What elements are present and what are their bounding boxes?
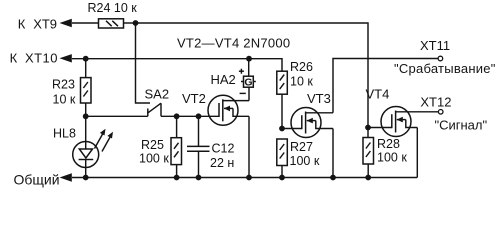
wire gate node to C12 xyxy=(198,116,200,146)
svg-text:R24 10 к: R24 10 к xyxy=(88,1,138,15)
terminal XT11 xyxy=(438,56,443,61)
svg-text:C12: C12 xyxy=(212,142,235,156)
transistor VT3 xyxy=(291,108,333,138)
wire gate to VT4 xyxy=(368,127,392,129)
wire HL8 to ground rail xyxy=(85,168,87,178)
wire node A down to HL8 xyxy=(85,116,87,141)
svg-text:100 к: 100 к xyxy=(377,151,407,165)
LED arrow 1 xyxy=(95,129,106,149)
svg-text:10 к: 10 к xyxy=(290,75,313,89)
junction dot C12 ground xyxy=(196,175,202,181)
svg-text:R27: R27 xyxy=(290,140,313,154)
wire R27 to ground xyxy=(281,166,283,178)
wire VT2 source down to ground xyxy=(248,116,250,177)
junction dot R27 ground xyxy=(279,175,285,181)
junction dot C12 top xyxy=(196,113,202,119)
junction dot HL8 ground xyxy=(83,175,89,181)
wire VT3 source down to ground xyxy=(332,129,334,178)
capacitor C12 xyxy=(187,146,210,151)
junction dot node A xyxy=(83,113,89,119)
svg-text:Общий: Общий xyxy=(14,172,60,188)
resistor R24 xyxy=(99,19,124,28)
svg-text:22 н: 22 н xyxy=(210,156,234,170)
svg-text:100 к: 100 к xyxy=(139,152,169,166)
buzzer HA2 xyxy=(241,76,256,89)
svg-text:100 к: 100 к xyxy=(290,154,320,168)
junction dot R24 rail xyxy=(133,20,139,26)
wire VT2 drain up to HA2 xyxy=(248,87,250,100)
LED HL8 xyxy=(73,142,99,168)
resistor R28 xyxy=(363,138,374,165)
resistor R27 xyxy=(277,139,288,166)
wire VT3 drain up to XT11 xyxy=(333,59,438,113)
wire R28 to ground xyxy=(367,164,369,178)
svg-text:R26: R26 xyxy=(290,60,313,74)
wire gate node to R25 xyxy=(176,116,178,137)
svg-text:ХТ11: ХТ11 xyxy=(420,38,450,53)
arrow to XT10 xyxy=(60,54,72,62)
junction dot R25 ground xyxy=(174,175,180,181)
wire node A to SA2 xyxy=(86,115,148,117)
svg-text:VT3: VT3 xyxy=(307,91,331,106)
wire R24 junction down to SA2 upper contact xyxy=(136,23,151,103)
wire VT4 source down to ground xyxy=(416,128,418,178)
svg-text:КХТ10: КХТ10 xyxy=(10,50,58,65)
wire R23 to node A xyxy=(85,103,87,116)
svg-text:R23: R23 xyxy=(52,78,75,92)
switch SA2 xyxy=(147,103,161,116)
svg-text:VT4: VT4 xyxy=(366,87,390,102)
arrow to XT9 xyxy=(60,19,72,27)
wire gate node to VT3 xyxy=(282,128,302,130)
LED arrow 2 xyxy=(102,132,113,152)
junction dot VT4 gate xyxy=(365,125,371,131)
svg-text:G: G xyxy=(244,77,252,89)
transistor VT4 xyxy=(381,107,438,137)
plus sign HA2 xyxy=(239,69,244,74)
wire R25 to ground xyxy=(176,165,178,178)
transistor VT2 xyxy=(208,95,249,125)
wire R26 to VT3 gate node xyxy=(281,94,283,128)
ground rail wire xyxy=(72,177,417,179)
svg-text:R25: R25 xyxy=(141,138,164,152)
junction dot R25 top xyxy=(174,113,180,119)
junction dot VT3 gate xyxy=(279,126,285,132)
svg-text:"Сигнал": "Сигнал" xyxy=(435,118,488,133)
top rail wire to right corner xyxy=(136,23,369,138)
junction dot R23 top xyxy=(83,56,89,62)
supply rail wire XT10 xyxy=(72,59,282,71)
minus sign HA2 xyxy=(240,92,246,94)
svg-text:КХТ9: КХТ9 xyxy=(18,17,57,32)
wire R24 to top rail junction xyxy=(124,22,136,24)
svg-text:ХТ12: ХТ12 xyxy=(420,94,451,109)
resistor R25 xyxy=(171,138,182,165)
arrow common xyxy=(60,173,72,181)
terminal XT12 xyxy=(438,110,443,115)
junction dot VT3 source ground xyxy=(330,175,336,181)
junction dot R28 ground xyxy=(365,175,371,181)
svg-text:VT2—VT4 2N7000: VT2—VT4 2N7000 xyxy=(177,35,290,50)
wire rail to R23 xyxy=(85,59,87,78)
wire C12 to ground xyxy=(198,151,200,177)
svg-text:VT2: VT2 xyxy=(182,91,206,106)
svg-text:"Срабатывание": "Срабатывание" xyxy=(394,61,496,76)
junction dot HA2 top xyxy=(246,56,252,62)
junction dot VT2 source ground xyxy=(246,175,252,181)
resistor R23 xyxy=(81,78,92,103)
resistor R26 xyxy=(277,71,288,94)
svg-text:10 к: 10 к xyxy=(53,93,76,107)
svg-text:HA2: HA2 xyxy=(211,72,236,87)
svg-text:SA2: SA2 xyxy=(145,87,170,102)
wire XT9 arrow to R24 xyxy=(72,22,99,24)
svg-text:HL8: HL8 xyxy=(53,127,76,141)
wire SA2 to gate node xyxy=(161,115,219,117)
wire rail down to HA2 xyxy=(248,59,250,76)
svg-text:R28: R28 xyxy=(377,137,400,151)
